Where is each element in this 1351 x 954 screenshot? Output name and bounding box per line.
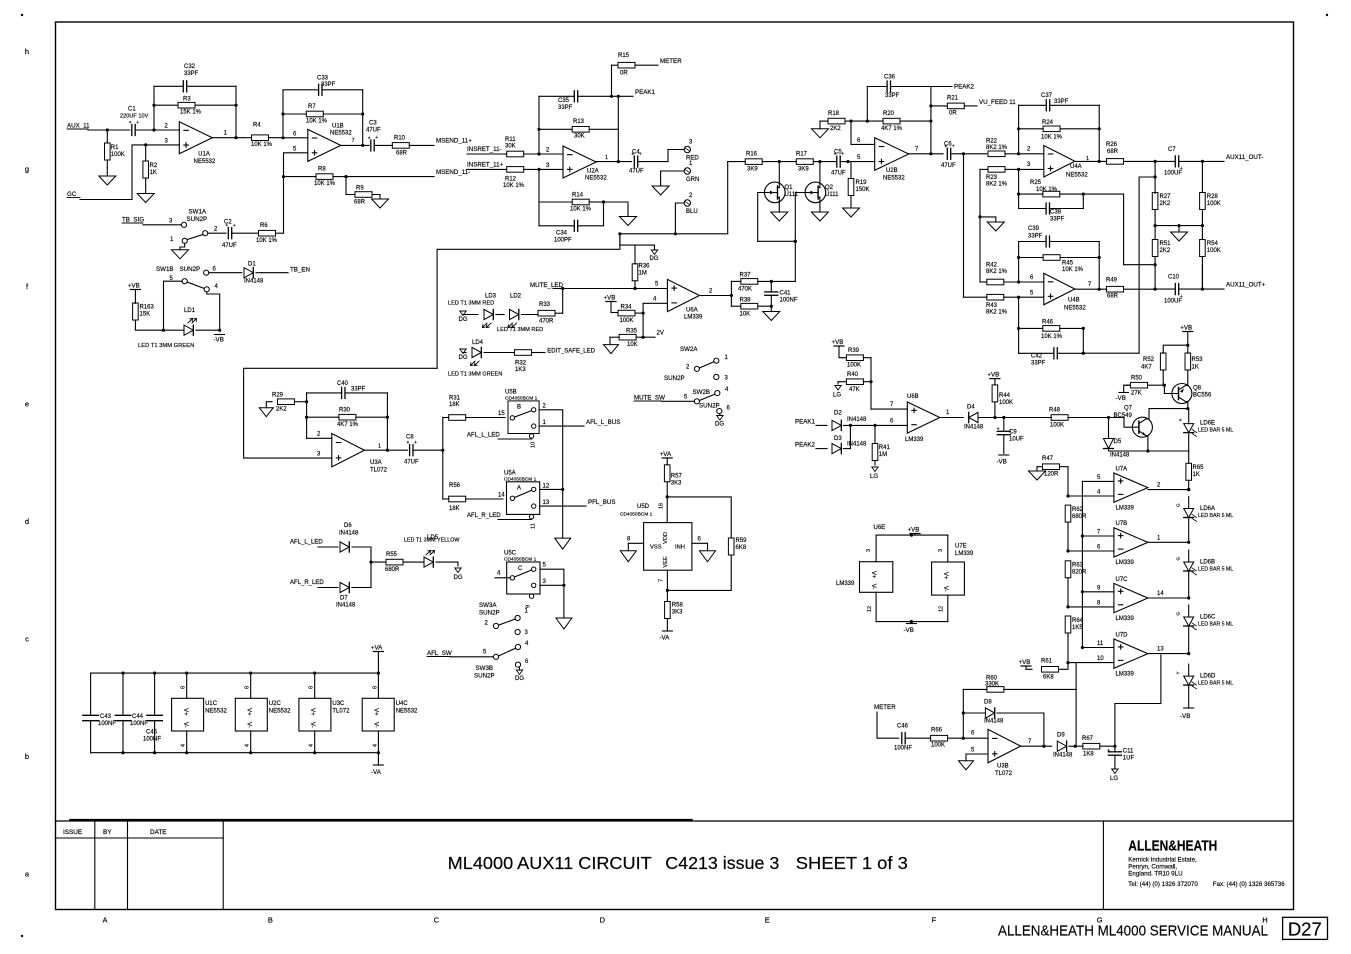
svg-text:10K 1%: 10K 1% — [1062, 267, 1084, 273]
wire D6/D7 join — [352, 547, 371, 588]
svg-text:Fax: (44) (0) 1326 365736: Fax: (44) (0) 1326 365736 — [1213, 881, 1285, 888]
resistor R42 — [980, 281, 987, 283]
ground LG C11 — [1114, 755, 1116, 768]
svg-text:33PF: 33PF — [1054, 99, 1069, 105]
wire U4A feedback left vertical — [1018, 105, 1020, 154]
wire U3A feedback left vertical — [306, 393, 308, 438]
resistor R54 — [1201, 226, 1203, 240]
ground U5D VSS — [627, 543, 629, 551]
svg-text:4: 4 — [309, 744, 315, 747]
capacitor C46 — [905, 737, 930, 739]
svg-text:4K7 1%: 4K7 1% — [881, 126, 903, 132]
resistor R38 — [731, 305, 740, 307]
ground U5C — [563, 585, 565, 618]
svg-text:C34: C34 — [556, 231, 568, 237]
svg-text:SW2A: SW2A — [680, 346, 698, 353]
analog switch U5C — [507, 562, 540, 594]
svg-text:G: G — [1097, 916, 1103, 925]
svg-text:U1A: U1A — [198, 152, 210, 158]
capacitor C11 — [1114, 746, 1116, 752]
svg-text:BLU: BLU — [686, 209, 698, 215]
svg-text:6K8: 6K8 — [736, 545, 747, 551]
svg-text:CD4050BCM 1: CD4050BCM 1 — [620, 512, 653, 518]
wire U7C + input — [1082, 591, 1114, 593]
ground SW1A — [180, 243, 185, 249]
svg-text:R67: R67 — [1082, 736, 1094, 742]
capacitor C10 — [1155, 288, 1175, 290]
svg-text:NE5532: NE5532 — [1064, 306, 1086, 312]
svg-text:68R: 68R — [396, 151, 408, 157]
svg-text:14: 14 — [1157, 591, 1164, 597]
svg-text:NE5532: NE5532 — [585, 176, 607, 182]
wire U4A feedback right vertical — [1098, 105, 1100, 161]
svg-text:R65: R65 — [1193, 465, 1205, 471]
switch SW3B — [493, 654, 498, 659]
svg-text:R33: R33 — [539, 302, 551, 308]
resistor R1 — [106, 130, 108, 143]
svg-text:-VA: -VA — [371, 769, 382, 776]
svg-text:R63: R63 — [1072, 563, 1084, 569]
resistor R9 — [346, 177, 355, 195]
transistor Q8 BC556 — [1172, 384, 1192, 404]
analog switch U5A — [507, 482, 540, 515]
svg-text:R42: R42 — [986, 263, 998, 269]
svg-text:R18: R18 — [828, 111, 840, 117]
resistor R13 — [539, 128, 572, 130]
wire Q7 emitter — [1146, 436, 1148, 452]
svg-text:EDIT_SAFE_LED: EDIT_SAFE_LED — [547, 348, 595, 354]
svg-text:+VB: +VB — [128, 282, 140, 289]
svg-text:68R: 68R — [354, 200, 366, 206]
wire Q7 collector — [1146, 409, 1188, 419]
svg-text:R15: R15 — [618, 53, 630, 59]
svg-text:LD4: LD4 — [472, 340, 484, 346]
wire U2A lower R14/C34 vertical — [538, 169, 540, 225]
svg-text:10K 1%: 10K 1% — [256, 238, 278, 244]
svg-text:PFL_BUS: PFL_BUS — [588, 499, 616, 506]
svg-text:RED: RED — [686, 156, 699, 162]
svg-text:+VA: +VA — [371, 644, 383, 651]
svg-text:8: 8 — [181, 686, 187, 689]
svg-text:U5D: U5D — [637, 504, 650, 510]
svg-text:V+: V+ — [309, 708, 315, 716]
svg-text:AFL_SW: AFL_SW — [427, 650, 452, 657]
wire U5D VSS pin8 — [628, 542, 643, 544]
capacitor C34 — [539, 225, 574, 227]
wire R27 column top — [1154, 161, 1156, 193]
wire U1B pin5 chain — [284, 153, 308, 233]
svg-text:G: G — [1176, 503, 1181, 507]
wire U5B pin2 to AFL vertical — [539, 410, 563, 490]
resistor R60 — [963, 688, 987, 690]
title block top line — [56, 820, 1294, 822]
svg-text:11: 11 — [1097, 641, 1104, 647]
svg-text:R57: R57 — [671, 474, 683, 480]
svg-text:R58: R58 — [672, 603, 684, 609]
svg-text:R9: R9 — [356, 186, 364, 192]
resistor R7 — [283, 113, 306, 115]
resistor R48 — [1068, 417, 1108, 419]
wire R36 top hook — [620, 234, 635, 264]
transistor Q2 mute FET — [805, 182, 826, 203]
resistor R45 — [1019, 257, 1044, 259]
svg-text:LD6A: LD6A — [1200, 506, 1215, 512]
svg-text:SW1B: SW1B — [156, 266, 174, 273]
resistor R4 — [243, 137, 251, 139]
resistor R46 — [1019, 327, 1043, 329]
capacitor C5 — [820, 161, 837, 163]
svg-text:+VB: +VB — [908, 526, 920, 533]
wire R10 to MSEND_11+ — [409, 144, 434, 146]
ground DG SW3B — [519, 667, 521, 670]
capacitor C43 — [90, 673, 92, 715]
svg-text:R35: R35 — [626, 329, 638, 335]
wire U7A output — [1148, 489, 1189, 491]
svg-text:100UF: 100UF — [1164, 299, 1182, 305]
svg-text:1M: 1M — [879, 452, 887, 458]
svg-text:B: B — [517, 405, 521, 411]
svg-text:R53: R53 — [1192, 357, 1204, 363]
svg-text:13: 13 — [543, 500, 550, 506]
svg-text:100K: 100K — [999, 400, 1013, 406]
svg-text:ALLEN&HEATH: ALLEN&HEATH — [1128, 838, 1217, 854]
wire mute bus horizontal — [620, 233, 728, 235]
wire METER down — [877, 712, 899, 738]
wire -VA rail — [91, 752, 379, 754]
wire divider mid rail — [1154, 210, 1156, 226]
svg-text:U3C: U3C — [332, 701, 345, 707]
svg-text:C8: C8 — [406, 435, 414, 441]
svg-text:C2: C2 — [224, 220, 232, 226]
corner registration dots — [21, 14, 23, 16]
svg-text:NE5532: NE5532 — [269, 709, 291, 715]
wire INSRET+ to R12 — [467, 168, 507, 170]
resistor R21 — [931, 105, 947, 107]
wire U7A - input — [1068, 495, 1114, 497]
transistor Q7 BC549 — [1132, 417, 1152, 437]
svg-text:CD4050BCM 1: CD4050BCM 1 — [505, 395, 538, 401]
svg-text:3K9: 3K9 — [747, 167, 758, 173]
capacitor C41 — [770, 281, 772, 292]
resistor R67 — [1100, 745, 1115, 747]
svg-text:D8: D8 — [984, 700, 992, 706]
wire U2A output — [596, 161, 632, 163]
svg-text:10K: 10K — [740, 312, 751, 318]
capacitor C38 — [1019, 208, 1047, 210]
svg-text:ALLEN&HEATH ML4000 SERVICE MAN: ALLEN&HEATH ML4000 SERVICE MANUAL — [998, 922, 1268, 939]
ground R1 — [106, 168, 108, 176]
svg-text:SUN2P: SUN2P — [474, 673, 495, 680]
svg-text:D: D — [600, 916, 606, 925]
svg-text:100NF: 100NF — [143, 737, 161, 743]
resistor R65 — [1188, 451, 1190, 463]
svg-text:R3: R3 — [183, 97, 191, 103]
svg-text:R34: R34 — [621, 305, 633, 311]
svg-text:VU_FEED 11: VU_FEED 11 — [979, 99, 1016, 106]
svg-text:V-: V- — [309, 722, 315, 728]
ground R14 — [620, 217, 637, 226]
resistor R6 — [232, 232, 259, 234]
svg-text:47UF: 47UF — [629, 169, 644, 175]
svg-text:C38: C38 — [1050, 210, 1062, 216]
svg-text:R28: R28 — [1207, 194, 1219, 200]
wire R8 to MSEND_11- — [346, 176, 434, 178]
wire U2B output — [909, 153, 943, 155]
resistor R63 — [1067, 578, 1069, 607]
svg-text:1: 1 — [378, 444, 381, 450]
svg-text:LED BAR 5 ML: LED BAR 5 ML — [1198, 622, 1233, 628]
svg-text:C37: C37 — [1041, 93, 1053, 99]
svg-text:LED T1 3MM RED: LED T1 3MM RED — [497, 327, 543, 333]
LED LD1 — [164, 329, 185, 331]
power -VA — [377, 753, 379, 765]
wire PEAK1 vertical — [617, 96, 619, 161]
svg-text:U5B: U5B — [505, 390, 517, 396]
svg-text:VEE: VEE — [663, 556, 669, 567]
op-amp power block U2C — [250, 673, 252, 698]
capacitor C8 — [409, 445, 411, 456]
svg-text:C: C — [518, 566, 523, 572]
diode D4 — [969, 412, 978, 422]
svg-text:4: 4 — [245, 744, 251, 747]
svg-text:C39: C39 — [1028, 226, 1040, 232]
svg-text:C43: C43 — [100, 714, 112, 720]
IC U7E power — [947, 535, 949, 562]
wire U1B output — [341, 144, 369, 146]
capacitor C4 — [633, 156, 635, 167]
svg-text:R44: R44 — [999, 393, 1011, 399]
svg-text:10K: 10K — [627, 342, 638, 348]
wire LED bar column joins — [1188, 518, 1190, 543]
wire divider ladder — [1067, 467, 1069, 497]
svg-text:33PF: 33PF — [885, 93, 900, 99]
svg-text:C33: C33 — [317, 76, 329, 82]
net TB_EN — [262, 272, 288, 274]
svg-text:4K7 1%: 4K7 1% — [337, 422, 359, 428]
wire R60 right vertical — [1075, 689, 1077, 746]
svg-text:SUN2P: SUN2P — [699, 403, 720, 410]
svg-text:R20: R20 — [883, 111, 895, 117]
svg-text:INSRET_11-: INSRET_11- — [467, 146, 502, 153]
svg-text:BY: BY — [103, 829, 112, 836]
svg-text:U2B: U2B — [886, 168, 898, 174]
svg-text:R51: R51 — [1160, 241, 1172, 247]
svg-text:47K: 47K — [849, 387, 860, 393]
wire feedback right vertical to output — [235, 86, 237, 137]
op-amp U7D comparator — [1114, 639, 1148, 668]
svg-text:R29: R29 — [272, 393, 284, 399]
svg-text:-VB: -VB — [1180, 713, 1190, 720]
wire bus to R16 — [727, 162, 729, 234]
diode D2 — [832, 420, 841, 430]
ground R9 — [372, 195, 380, 200]
svg-text:7: 7 — [659, 579, 665, 582]
wire SW1B-4 down to LD1 — [207, 292, 220, 330]
svg-text:D9: D9 — [1057, 733, 1065, 739]
svg-text:PEAK1: PEAK1 — [795, 419, 816, 426]
svg-text:10K 1%: 10K 1% — [570, 207, 592, 213]
capacitor C33 — [283, 89, 319, 91]
svg-text:+: + — [233, 223, 236, 229]
svg-text:»: » — [1179, 418, 1182, 424]
svg-text:100UF: 100UF — [1164, 171, 1182, 177]
wire MUTE_SW to SW2B — [662, 400, 694, 402]
svg-text:V+: V+ — [182, 708, 188, 716]
wire ladder to R60 — [1075, 663, 1077, 690]
op-amp U3A — [332, 434, 365, 467]
svg-text:1UF: 1UF — [1123, 756, 1135, 762]
svg-text:8K2 1%: 8K2 1% — [986, 269, 1008, 275]
wire D5 to Q7 emitter — [1109, 449, 1189, 452]
resistor R59 — [728, 538, 734, 555]
svg-text:+: + — [952, 144, 955, 150]
svg-text:10: 10 — [531, 442, 537, 448]
LED bar LD6C — [1188, 605, 1190, 617]
svg-text:12: 12 — [939, 606, 945, 612]
svg-text:8: 8 — [309, 686, 315, 689]
svg-text:NE5532: NE5532 — [883, 176, 905, 182]
svg-text:D5: D5 — [1114, 439, 1122, 445]
wire SW1B-6 to D1 — [209, 272, 242, 274]
svg-text:1K8: 1K8 — [1083, 752, 1094, 758]
svg-text:V-: V- — [942, 586, 948, 592]
svg-text:D4: D4 — [967, 405, 975, 411]
wire U4B output — [1075, 288, 1107, 290]
wire U3B feedback vertical — [962, 689, 964, 738]
resistor R41 — [874, 425, 876, 443]
svg-text:R66: R66 — [931, 728, 943, 734]
svg-text:PEAK2: PEAK2 — [954, 84, 975, 91]
svg-text:1K: 1K — [150, 170, 157, 176]
ground C41 — [770, 306, 772, 311]
svg-text:680R: 680R — [1072, 514, 1087, 520]
svg-text:33PF: 33PF — [321, 82, 336, 88]
wire U6B output — [940, 417, 963, 419]
resistor R61 — [1059, 668, 1063, 670]
svg-text:R37: R37 — [740, 273, 752, 279]
svg-text:SUN2P: SUN2P — [479, 610, 500, 617]
wire U7A + input — [1082, 480, 1114, 482]
svg-text:DG: DG — [515, 676, 524, 682]
svg-text:MUTE_SW: MUTE_SW — [634, 395, 665, 402]
wire Q8 collector — [1186, 402, 1188, 409]
svg-text:BC549: BC549 — [1114, 413, 1133, 419]
svg-text:D27: D27 — [1288, 918, 1322, 939]
svg-text:LED BAR 5 ML: LED BAR 5 ML — [1198, 681, 1233, 687]
svg-text:100NF: 100NF — [98, 721, 116, 727]
svg-text:E: E — [765, 916, 770, 925]
power -VB LM339 blocks — [876, 621, 948, 623]
svg-text:R1: R1 — [111, 145, 119, 151]
ground DG LD5 — [455, 568, 461, 573]
svg-text:R50: R50 — [1131, 376, 1143, 382]
svg-text:R62: R62 — [1072, 507, 1084, 513]
resistor R35 — [610, 336, 619, 338]
svg-text:C36: C36 — [884, 75, 896, 81]
wire SW1A pole to C2 — [208, 232, 226, 234]
svg-text:10K 1%: 10K 1% — [1041, 135, 1063, 141]
svg-text:Y: Y — [1176, 672, 1181, 675]
svg-text:C46: C46 — [897, 724, 909, 730]
capacitor C40 — [307, 392, 342, 394]
svg-text:+: + — [1107, 748, 1110, 754]
diode D1 — [256, 272, 262, 274]
svg-text:100K: 100K — [620, 318, 634, 324]
svg-text:Q1: Q1 — [785, 185, 794, 191]
wire U6A output — [699, 295, 731, 297]
ground R29 — [266, 402, 272, 408]
svg-text:+VA: +VA — [660, 451, 672, 458]
ground DG SW2B — [719, 414, 721, 416]
op-amp U7C comparator — [1114, 583, 1148, 612]
resistor R17 — [779, 161, 796, 163]
wire + input bus — [1081, 481, 1083, 647]
svg-text:DATE: DATE — [150, 829, 167, 836]
resistor R2 — [145, 145, 147, 161]
svg-text:V+: V+ — [372, 708, 378, 716]
svg-text:GC: GC — [67, 191, 77, 198]
svg-text:DG: DG — [459, 355, 468, 361]
svg-text:R43: R43 — [986, 303, 998, 309]
svg-text:SUN2P: SUN2P — [664, 375, 685, 382]
svg-text:IN4148: IN4148 — [339, 531, 359, 537]
svg-text:-VB: -VB — [214, 337, 224, 344]
wire Q2 source — [819, 203, 821, 212]
svg-text:IN4148: IN4148 — [1053, 753, 1073, 759]
svg-text:47UF: 47UF — [404, 460, 419, 466]
diode D9 — [1057, 741, 1066, 751]
svg-text:G: G — [1176, 557, 1181, 561]
wire Q2 drain — [819, 162, 821, 183]
svg-text:R31: R31 — [449, 396, 461, 402]
wire R16-R17 node — [778, 160, 781, 163]
wire R37/R38 left vertical — [730, 281, 732, 306]
wire C5 node — [846, 160, 849, 163]
net 2V — [643, 336, 655, 338]
svg-text:SW3A: SW3A — [479, 602, 497, 609]
capacitor C42 — [1019, 352, 1054, 354]
svg-text:C40: C40 — [337, 381, 349, 387]
svg-text:7: 7 — [352, 138, 355, 144]
LED bar LD6D — [1188, 664, 1190, 676]
svg-text:18K: 18K — [449, 402, 460, 408]
svg-text:DG: DG — [650, 256, 659, 262]
wire Q1 source — [778, 203, 780, 212]
resistor R39 — [863, 357, 871, 359]
wire AFL loop left — [244, 368, 438, 458]
ground divider — [1178, 226, 1180, 232]
wire R15 vertical — [611, 65, 613, 96]
wire R23 vertical to R42 — [979, 217, 981, 282]
svg-text:10: 10 — [1097, 656, 1104, 662]
svg-text:4: 4 — [372, 744, 378, 747]
svg-text:100K: 100K — [1207, 201, 1221, 207]
svg-text:1: 1 — [605, 155, 608, 161]
svg-text:G: G — [1176, 612, 1181, 616]
wire GRN to ground — [661, 171, 685, 186]
wire R67 node — [1113, 745, 1116, 748]
ground Q1 — [771, 212, 788, 221]
capacitor C1 — [131, 125, 133, 136]
svg-text:33PF: 33PF — [351, 387, 366, 393]
svg-text:2K2: 2K2 — [830, 126, 841, 132]
svg-text:U1B: U1B — [332, 124, 344, 130]
svg-text:NE5532: NE5532 — [194, 159, 216, 165]
svg-text:METER: METER — [660, 58, 682, 65]
LED LD5 — [420, 561, 424, 563]
LED LD2 — [510, 309, 519, 319]
resistor R34 — [635, 312, 643, 314]
